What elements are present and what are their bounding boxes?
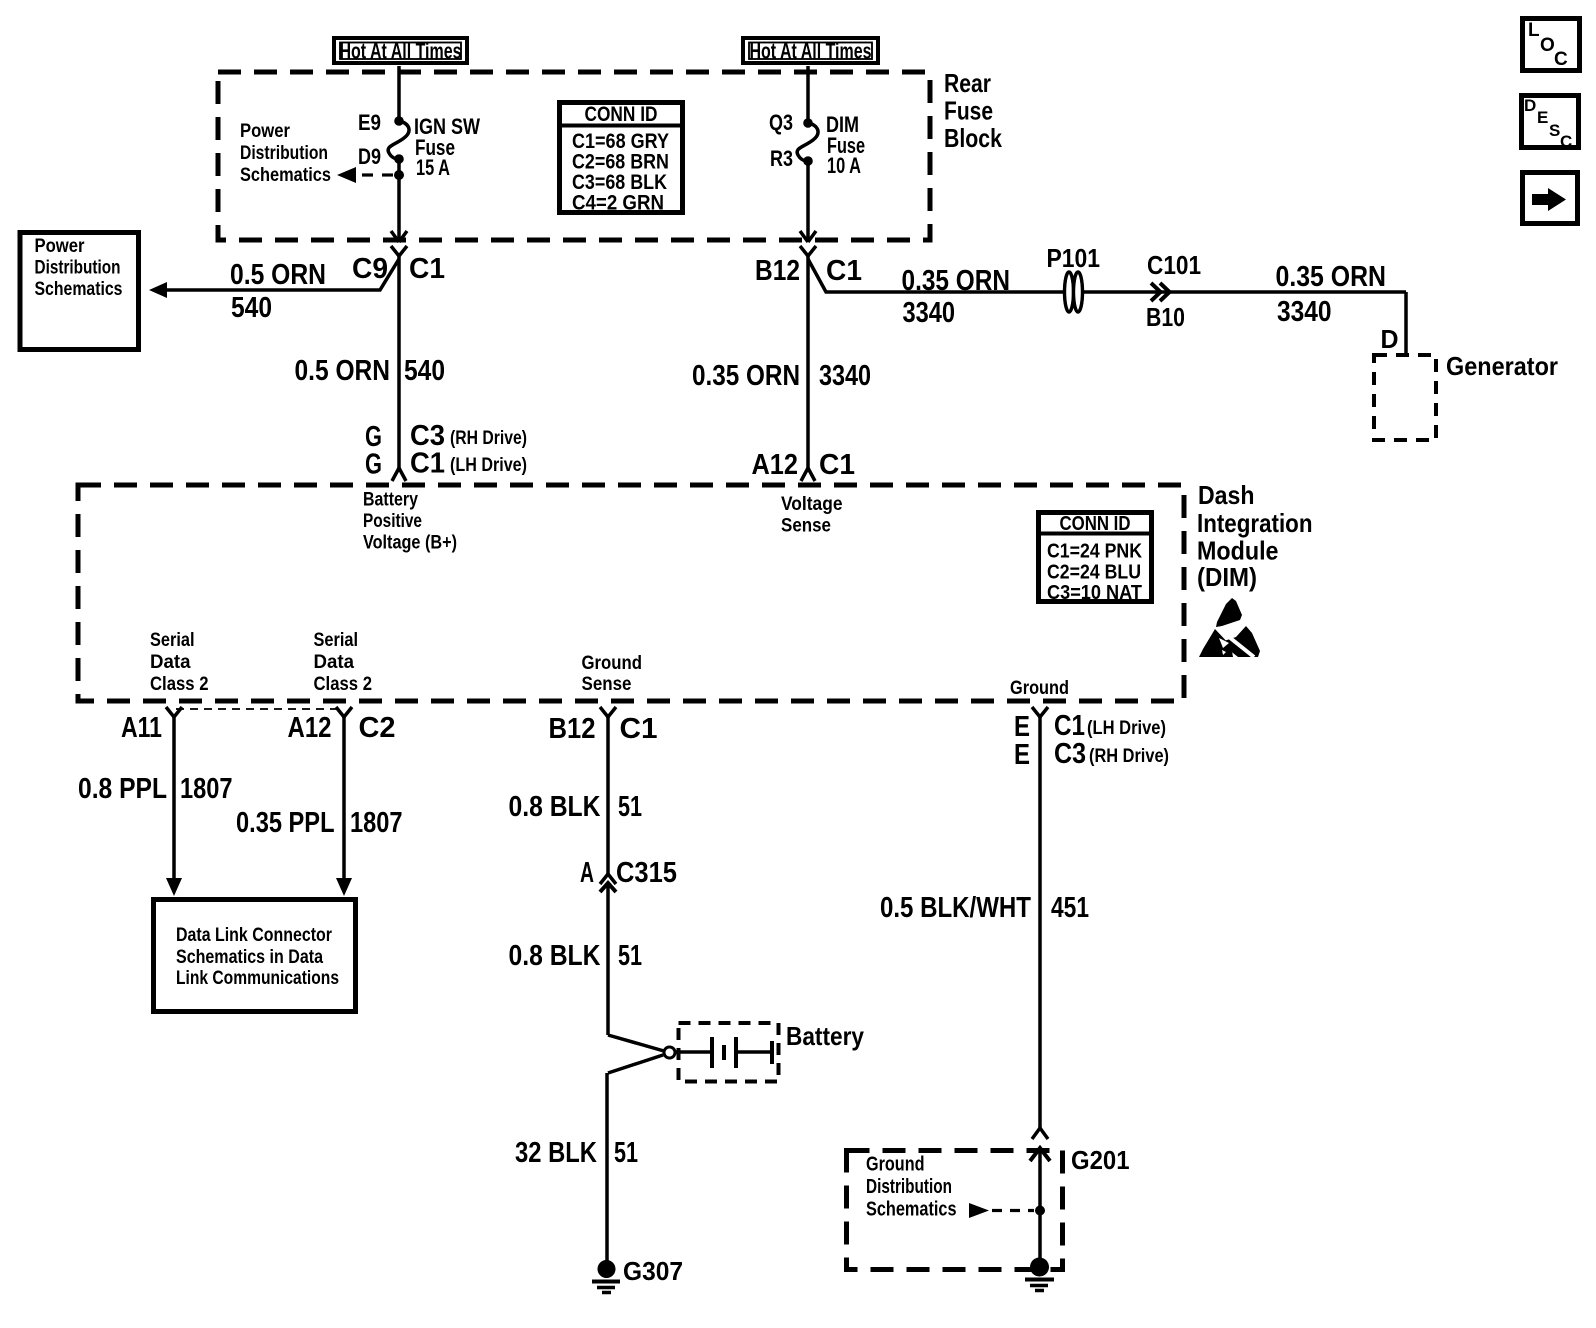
svg-text:P101: P101 — [1047, 243, 1101, 273]
svg-text:Block: Block — [944, 123, 1002, 153]
svg-text:Class 2: Class 2 — [150, 674, 209, 695]
svg-text:Q3: Q3 — [769, 110, 793, 135]
svg-text:0.8 PPL: 0.8 PPL — [78, 773, 167, 805]
svg-text:51: 51 — [618, 940, 642, 972]
svg-text:1807: 1807 — [350, 807, 403, 839]
svg-text:Ground: Ground — [1010, 678, 1069, 699]
svg-text:L: L — [1528, 20, 1540, 41]
svg-text:Schematics: Schematics — [35, 279, 123, 300]
svg-text:0.35 ORN: 0.35 ORN — [902, 265, 1011, 297]
in-line connection into G201 box — [1030, 1128, 1050, 1161]
svg-text:451: 451 — [1051, 892, 1089, 924]
wire from Hot1 to fuse E9 — [397, 66, 401, 121]
text Ground Distribution Schematics — [866, 1154, 957, 1221]
serial data wire A11 to DLC — [166, 724, 182, 896]
wire C1 down to DIM (voltage sense) — [806, 263, 810, 470]
connector C9/C1 fork below fuse block — [391, 246, 407, 263]
svg-text:Positive: Positive — [363, 511, 422, 532]
svg-text:B10: B10 — [1146, 302, 1185, 332]
wire down into generator — [1404, 292, 1408, 353]
Hot At All Times label box 1 — [334, 38, 467, 64]
svg-text:3340: 3340 — [819, 360, 871, 392]
svg-text:540: 540 — [231, 292, 272, 324]
svg-text:S: S — [1549, 121, 1560, 140]
grommet P101 — [1065, 272, 1083, 312]
connector fork B12/C1 below DIM (ground sense) — [600, 707, 616, 724]
svg-text:C1: C1 — [409, 253, 445, 285]
svg-text:(LH Drive): (LH Drive) — [450, 455, 527, 476]
wire fuse D9 down to fuse block edge — [397, 159, 401, 240]
svg-text:B12: B12 — [755, 255, 800, 287]
svg-text:C3: C3 — [1054, 738, 1086, 770]
text Power Distribution Schematics (inside fuse block) — [240, 121, 331, 186]
pin label E / C3 (RH Drive) — [1014, 738, 1169, 771]
svg-text:(RH Drive): (RH Drive) — [450, 428, 527, 449]
svg-text:CONN ID: CONN ID — [585, 103, 658, 126]
svg-text:51: 51 — [618, 791, 642, 823]
svg-text:Fuse: Fuse — [944, 96, 993, 126]
svg-text:Serial: Serial — [150, 630, 195, 651]
svg-text:C1: C1 — [410, 448, 445, 480]
connector B12/C1 fork below fuse block — [800, 246, 816, 263]
wire branch to Power Distribution Schematics box — [149, 259, 399, 298]
svg-text:C9: C9 — [352, 253, 388, 285]
svg-text:Module: Module — [1197, 536, 1279, 566]
svg-text:Ground: Ground — [866, 1154, 925, 1176]
svg-text:0.5 ORN: 0.5 ORN — [295, 355, 391, 387]
svg-text:0.5 ORN: 0.5 ORN — [230, 259, 326, 291]
pin function label Voltage Sense — [781, 494, 843, 537]
svg-text:C2: C2 — [359, 712, 396, 744]
svg-text:Schematics: Schematics — [866, 1199, 957, 1221]
svg-text:C101: C101 — [1147, 250, 1201, 280]
svg-text:Sense: Sense — [582, 674, 632, 695]
next-page arrow icon button — [1523, 173, 1578, 224]
svg-text:Battery: Battery — [363, 490, 418, 511]
svg-text:51: 51 — [614, 1137, 638, 1169]
wire to G307 — [605, 1073, 609, 1261]
ground sense wire lower run — [606, 886, 610, 1035]
wire inside G201 box — [1038, 1151, 1042, 1261]
connector fork E below DIM (ground) — [1032, 707, 1048, 724]
svg-text:E: E — [1014, 739, 1030, 771]
connector fork into DIM (battery feed) — [392, 468, 406, 481]
svg-text:A: A — [580, 857, 594, 889]
svg-text:C: C — [1560, 132, 1572, 151]
dashed reference arrow to Power Distribution Schematics — [337, 167, 393, 183]
wire from Hot2 to fuse Q3 — [806, 66, 810, 123]
svg-text:Schematics: Schematics — [240, 165, 331, 186]
pin label A12 / C1 at DIM — [752, 449, 856, 481]
svg-text:Rear: Rear — [944, 68, 991, 98]
pin function label Serial Data Class 2 (A11) — [150, 630, 209, 695]
svg-text:Data Link Connector: Data Link Connector — [176, 925, 332, 946]
svg-text:15 A: 15 A — [416, 155, 450, 180]
Power Distribution Schematics reference box — [20, 233, 139, 350]
pin function label Serial Data Class 2 (A12) — [314, 630, 373, 695]
fuse value label DIM Fuse 10 A — [826, 112, 865, 178]
junction dot on left fuse wire — [394, 170, 404, 180]
svg-text:(LH Drive): (LH Drive) — [1087, 718, 1166, 739]
pin function label Ground Sense — [582, 653, 643, 695]
connector fork into DIM (voltage sense) — [801, 468, 815, 481]
svg-text:Dash: Dash — [1198, 480, 1255, 510]
battery dashed box — [679, 1023, 779, 1082]
svg-text:3340: 3340 — [903, 297, 956, 329]
svg-text:Hot At All Times: Hot At All Times — [750, 39, 872, 64]
svg-text:CONN ID: CONN ID — [1060, 513, 1131, 535]
svg-text:E: E — [1537, 108, 1548, 127]
svg-text:A12: A12 — [752, 449, 799, 481]
svg-text:C1: C1 — [826, 255, 862, 287]
svg-text:G307: G307 — [623, 1256, 683, 1286]
open arrowhead left fuse wire into edge — [391, 231, 407, 242]
wire C1 down to DIM (battery positive feed) — [397, 263, 401, 470]
pin label G / C3 (RH Drive) — [365, 420, 527, 453]
fuse IGN SW 15A (E9/D9) — [388, 116, 409, 164]
wire to generator (horizontal run) — [808, 259, 1406, 292]
svg-text:R3: R3 — [770, 146, 793, 171]
svg-text:B12: B12 — [549, 713, 596, 745]
fuse value label IGN SW Fuse 15 A — [414, 114, 480, 180]
svg-text:(DIM): (DIM) — [1197, 562, 1257, 592]
label Dash Integration Module (DIM) — [1197, 480, 1313, 592]
LOC icon button — [1523, 19, 1580, 71]
svg-text:Serial: Serial — [314, 630, 359, 651]
CONN ID table (DIM) — [1036, 513, 1154, 605]
Dash Integration Module dashed enclosure — [78, 485, 1184, 701]
CONN ID table (rear fuse block) — [557, 103, 685, 215]
svg-text:1807: 1807 — [180, 773, 233, 805]
pin label E / C1 (LH Drive) — [1014, 710, 1166, 743]
connector fork A12/C2 below DIM — [336, 707, 352, 724]
open arrowhead right fuse wire into edge — [800, 231, 816, 242]
connector fork A11 below DIM — [166, 707, 182, 724]
svg-text:0.8 BLK: 0.8 BLK — [509, 940, 601, 972]
junction dot on G201 wire — [1035, 1206, 1045, 1216]
Data Link Connector reference box — [154, 900, 356, 1012]
ground G307 — [592, 1260, 620, 1293]
serial data wire A12 to DLC — [336, 724, 352, 896]
Rear Fuse Block dashed enclosure — [218, 72, 930, 240]
svg-text:Sense: Sense — [781, 516, 831, 537]
splice to battery sense — [608, 1035, 675, 1073]
svg-text:32 BLK: 32 BLK — [515, 1137, 597, 1169]
svg-text:Data: Data — [150, 652, 191, 673]
svg-text:G201: G201 — [1071, 1145, 1130, 1175]
svg-text:Generator: Generator — [1446, 351, 1558, 381]
svg-text:(RH Drive): (RH Drive) — [1089, 746, 1169, 767]
ground wire down from E — [1038, 724, 1042, 1128]
in-line connector C101 chevrons — [1151, 283, 1170, 301]
svg-text:Class 2: Class 2 — [314, 674, 373, 695]
pin function label Battery Positive Voltage (B+) — [363, 490, 457, 554]
svg-text:D9: D9 — [358, 144, 381, 169]
svg-text:0.35 ORN: 0.35 ORN — [692, 360, 800, 392]
svg-text:Voltage (B+): Voltage (B+) — [363, 533, 457, 554]
svg-text:3340: 3340 — [1277, 296, 1332, 328]
ESD sensitivity symbol — [1199, 598, 1260, 657]
svg-text:Power: Power — [35, 236, 86, 257]
svg-text:Voltage: Voltage — [781, 494, 843, 515]
in-line connector C315 — [600, 874, 616, 892]
svg-text:O: O — [1540, 35, 1555, 56]
svg-text:Hot At All Times: Hot At All Times — [340, 39, 462, 64]
svg-text:E9: E9 — [358, 110, 381, 135]
svg-text:10 A: 10 A — [827, 153, 861, 178]
svg-text:Ground: Ground — [582, 653, 643, 674]
svg-text:C1: C1 — [620, 713, 658, 745]
generator dashed box — [1374, 355, 1436, 440]
svg-text:C2=24 BLU: C2=24 BLU — [1047, 562, 1141, 584]
svg-text:540: 540 — [404, 355, 445, 387]
svg-text:G: G — [365, 449, 382, 481]
svg-text:Integration: Integration — [1197, 508, 1313, 538]
svg-text:C1=24 PNK: C1=24 PNK — [1047, 541, 1142, 563]
ground sense wire upper run — [606, 724, 610, 875]
svg-text:Distribution: Distribution — [240, 143, 328, 164]
battery symbol — [675, 1037, 772, 1068]
svg-text:Battery: Battery — [786, 1021, 864, 1051]
svg-text:0.5 BLK/WHT: 0.5 BLK/WHT — [880, 892, 1031, 924]
fuse DIM 10A (Q3/R3) — [797, 118, 818, 166]
svg-text:C3=10 NAT: C3=10 NAT — [1047, 582, 1142, 604]
label Rear Fuse Block — [944, 68, 1002, 153]
svg-text:Schematics in Data: Schematics in Data — [176, 947, 323, 968]
ground G201 — [1025, 1258, 1054, 1291]
svg-text:0.35 ORN: 0.35 ORN — [1276, 261, 1387, 293]
svg-text:D: D — [1524, 96, 1536, 115]
svg-text:Distribution: Distribution — [35, 258, 121, 279]
svg-text:Power: Power — [240, 121, 291, 142]
svg-text:Link Communications: Link Communications — [176, 968, 339, 989]
svg-text:A12: A12 — [288, 712, 332, 744]
svg-text:C: C — [1554, 49, 1568, 70]
DESC icon button — [1522, 96, 1579, 152]
svg-text:C315: C315 — [616, 857, 677, 889]
pin label G / C1 (LH Drive) — [365, 448, 527, 481]
Hot At All Times label box 2 — [743, 38, 878, 64]
dashed reference arrow to ground wire — [969, 1203, 1034, 1218]
svg-text:0.8 BLK: 0.8 BLK — [509, 791, 601, 823]
svg-text:C1: C1 — [819, 449, 855, 481]
svg-text:0.35 PPL: 0.35 PPL — [236, 807, 335, 839]
svg-text:Data: Data — [314, 652, 355, 673]
svg-text:C4=2 GRN: C4=2 GRN — [572, 192, 664, 215]
internal serial data bus (thin dashed) — [176, 708, 342, 710]
svg-text:D: D — [1381, 324, 1399, 354]
wire fuse R3 down to fuse block edge — [806, 161, 810, 240]
svg-text:Distribution: Distribution — [866, 1176, 952, 1198]
Ground Distribution Schematics dashed box — [847, 1151, 1063, 1270]
svg-text:A11: A11 — [121, 712, 162, 744]
